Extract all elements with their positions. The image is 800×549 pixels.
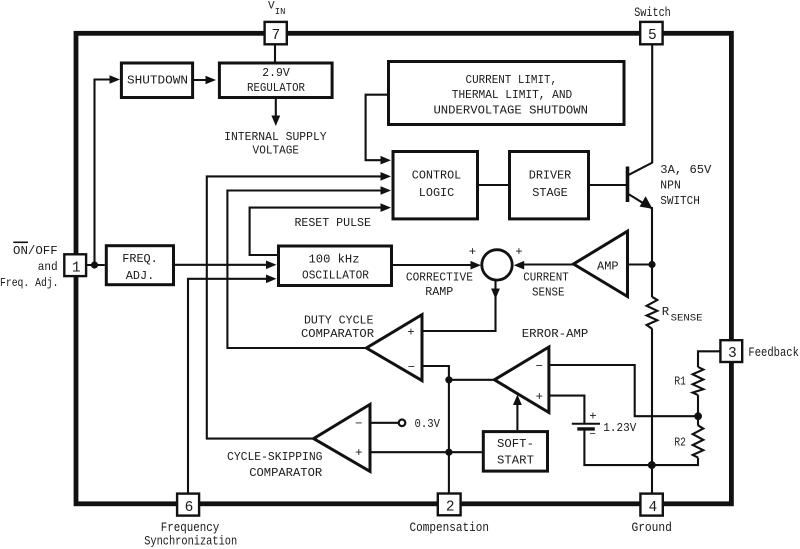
svg-text:NPN: NPN (660, 179, 681, 193)
wire current limit to control logic (366, 95, 388, 161)
wire emitter down to Rsense (651, 207, 653, 297)
pin 7 (265, 22, 287, 44)
svg-text:OSCILLATOR: OSCILLATOR (302, 269, 370, 283)
wire duty-cycle minus input to compensation node (422, 366, 449, 380)
wire compensation node down to pin2 (448, 380, 450, 494)
svg-text:STAGE: STAGE (532, 186, 568, 200)
wire duty-cycle output to control logic (227, 191, 387, 349)
svg-text:Synchronization: Synchronization (144, 535, 237, 549)
wire error-amp minus input to feedback divider (549, 365, 698, 416)
wire R2 to ground node (652, 458, 698, 466)
wire error-amp output to compensation node (449, 379, 495, 381)
svg-text:SHUTDOWN: SHUTDOWN (127, 74, 188, 88)
pin 6 (177, 494, 199, 516)
wire pin7 to regulator (274, 44, 276, 62)
transistor Q1 base bar (626, 167, 630, 203)
svg-text:SOFT-: SOFT- (497, 437, 534, 451)
svg-text:−: − (589, 429, 596, 441)
block DRIVER STAGE (510, 152, 589, 219)
svg-text:CURRENT: CURRENT (523, 270, 569, 284)
wire freq adj to oscillator (175, 264, 272, 266)
wire pin3 to R1 (698, 351, 721, 367)
transistor Q1 emitter arrowhead (640, 196, 653, 209)
pin 5 (640, 22, 662, 44)
svg-text:ADJ.: ADJ. (126, 269, 155, 283)
svg-text:and: and (38, 260, 58, 274)
svg-text:COMPARATOR: COMPARATOR (249, 466, 323, 480)
svg-text:R2: R2 (674, 436, 686, 450)
wire reset pulse oscillator to control logic (250, 208, 387, 255)
wire pin1 node to shutdown (95, 80, 117, 266)
block CURRENT LIMIT / THERMAL LIMIT / UNDERVOLTAGE SHUTDOWN (389, 62, 625, 125)
wire R1 to divider node (697, 395, 699, 416)
svg-text:Freq. Adj.: Freq. Adj. (0, 276, 59, 290)
svg-text:REGULATOR: REGULATOR (247, 81, 306, 95)
svg-text:0.3V: 0.3V (415, 417, 441, 431)
svg-text:4: 4 (649, 500, 658, 516)
svg-text:ON/OFF: ON/OFF (13, 244, 58, 258)
svg-text:SWITCH: SWITCH (660, 194, 700, 208)
svg-text:−: − (408, 360, 415, 374)
block FREQ ADJ (106, 246, 173, 285)
op-amp AMP (574, 231, 628, 296)
block CONTROL LOGIC (393, 152, 478, 219)
svg-text:AMP: AMP (597, 260, 619, 274)
comparator DUTY CYCLE (366, 315, 422, 381)
node dot divider (694, 412, 702, 420)
wire cycle-skipping minus input to 0.3V (370, 422, 399, 424)
transistor Q1 collector diagonal (628, 163, 653, 176)
battery 1.23V reference plates (572, 423, 600, 425)
wire battery to ground node (584, 429, 651, 465)
transistor Q1 emitter diagonal (628, 194, 653, 209)
pin 2 (438, 494, 461, 516)
node dot compensation upper (445, 376, 452, 383)
wire amp to summing node (518, 263, 574, 265)
resistor RSENSE (647, 297, 658, 329)
svg-text:R1: R1 (674, 374, 686, 388)
svg-text:VOLTAGE: VOLTAGE (253, 144, 300, 158)
wire driver stage to transistor base (590, 184, 626, 186)
svg-text:IN: IN (275, 7, 286, 17)
resistor R1 (693, 367, 704, 395)
block SOFT-START (483, 432, 547, 472)
svg-text:CORRECTIVE: CORRECTIVE (406, 270, 473, 284)
svg-text:+: + (407, 325, 414, 339)
wire summing node down to duty-cycle comparator plus input (422, 281, 496, 331)
svg-text:2.9V: 2.9V (262, 66, 290, 80)
wire error-amp plus input to reference (549, 396, 585, 424)
svg-text:CYCLE-SKIPPING: CYCLE-SKIPPING (227, 450, 323, 464)
wire control logic to driver stage (479, 184, 508, 186)
svg-text:DUTY CYCLE: DUTY CYCLE (304, 314, 374, 328)
svg-text:ERROR-AMP: ERROR-AMP (522, 327, 589, 341)
svg-text:Ground: Ground (631, 521, 672, 535)
wire amp output to sense node (628, 263, 653, 265)
svg-text:3A, 65V: 3A, 65V (660, 163, 712, 177)
wire pin5 to collector (651, 44, 653, 163)
svg-text:RESET PULSE: RESET PULSE (294, 216, 371, 230)
svg-text:FREQ.: FREQ. (122, 252, 158, 266)
node dot ground (648, 461, 656, 469)
block 100 kHz OSCILLATOR (279, 246, 392, 286)
resistor R2 (693, 425, 704, 457)
wire oscillator to summing node (393, 264, 476, 266)
svg-text:SENSE: SENSE (671, 313, 703, 324)
pin 4 (640, 494, 662, 516)
pin 3 (720, 340, 742, 362)
svg-text:SENSE: SENSE (532, 286, 565, 300)
svg-text:LOGIC: LOGIC (419, 186, 455, 200)
block 2.9V REGULATOR (219, 63, 332, 98)
svg-text:RAMP: RAMP (425, 285, 453, 299)
wire regulator to internal supply arrow (275, 99, 277, 117)
svg-text:6: 6 (185, 500, 194, 516)
svg-text:2: 2 (446, 500, 455, 516)
svg-text:+: + (515, 245, 522, 259)
outer IC boundary (76, 33, 731, 504)
wire cycle-skipping output to control logic (207, 176, 387, 438)
svg-text:Compensation: Compensation (409, 521, 489, 535)
svg-text:100 kHz: 100 kHz (309, 252, 360, 266)
terminal 0.3V open circle (399, 420, 406, 427)
wire pin6 to oscillator (188, 279, 272, 494)
svg-text:INTERNAL SUPPLY: INTERNAL SUPPLY (224, 130, 327, 144)
node dot pin1 (91, 261, 98, 268)
svg-text:+: + (355, 446, 362, 460)
svg-text:START: START (497, 453, 534, 467)
svg-text:+: + (536, 390, 543, 404)
svg-text:R: R (662, 305, 670, 319)
svg-text:1: 1 (72, 260, 81, 276)
svg-text:Frequency: Frequency (161, 521, 220, 535)
svg-text:Feedback: Feedback (748, 346, 799, 360)
summing node circle (482, 250, 512, 280)
svg-text:+: + (469, 245, 476, 259)
block SHUTDOWN (121, 63, 192, 98)
node dot amp sense (648, 261, 655, 268)
svg-text:5: 5 (648, 28, 657, 44)
wire soft-start to error-amp arrow (516, 403, 518, 430)
svg-text:Switch: Switch (634, 6, 671, 20)
node dot compensation lower (445, 449, 452, 456)
svg-text:3: 3 (728, 346, 737, 362)
svg-text:−: − (536, 359, 543, 373)
wire pin1 to freq adj (86, 264, 105, 266)
comparator CYCLE-SKIPPING (314, 404, 370, 471)
wire cycle-skipping plus input to soft-start (370, 451, 482, 453)
svg-text:−: − (355, 417, 362, 431)
wire ground node to pin4 (651, 465, 653, 494)
svg-text:UNDERVOLTAGE SHUTDOWN: UNDERVOLTAGE SHUTDOWN (433, 104, 588, 118)
svg-text:+: + (589, 409, 596, 423)
wire shutdown to regulator (194, 79, 212, 81)
pin 1 (64, 254, 86, 276)
svg-text:CONTROL: CONTROL (412, 169, 462, 183)
wire Rsense to ground node (651, 329, 653, 466)
svg-text:THERMAL LIMIT, AND: THERMAL LIMIT, AND (452, 88, 573, 102)
svg-text:COMPARATOR: COMPARATOR (301, 327, 375, 341)
svg-text:CURRENT LIMIT,: CURRENT LIMIT, (466, 73, 558, 87)
op-amp ERROR-AMP (494, 347, 549, 413)
svg-text:DRIVER: DRIVER (529, 169, 572, 183)
wire divider node to R2 (697, 416, 699, 425)
svg-text:7: 7 (272, 28, 281, 44)
svg-text:1.23V: 1.23V (603, 421, 637, 435)
